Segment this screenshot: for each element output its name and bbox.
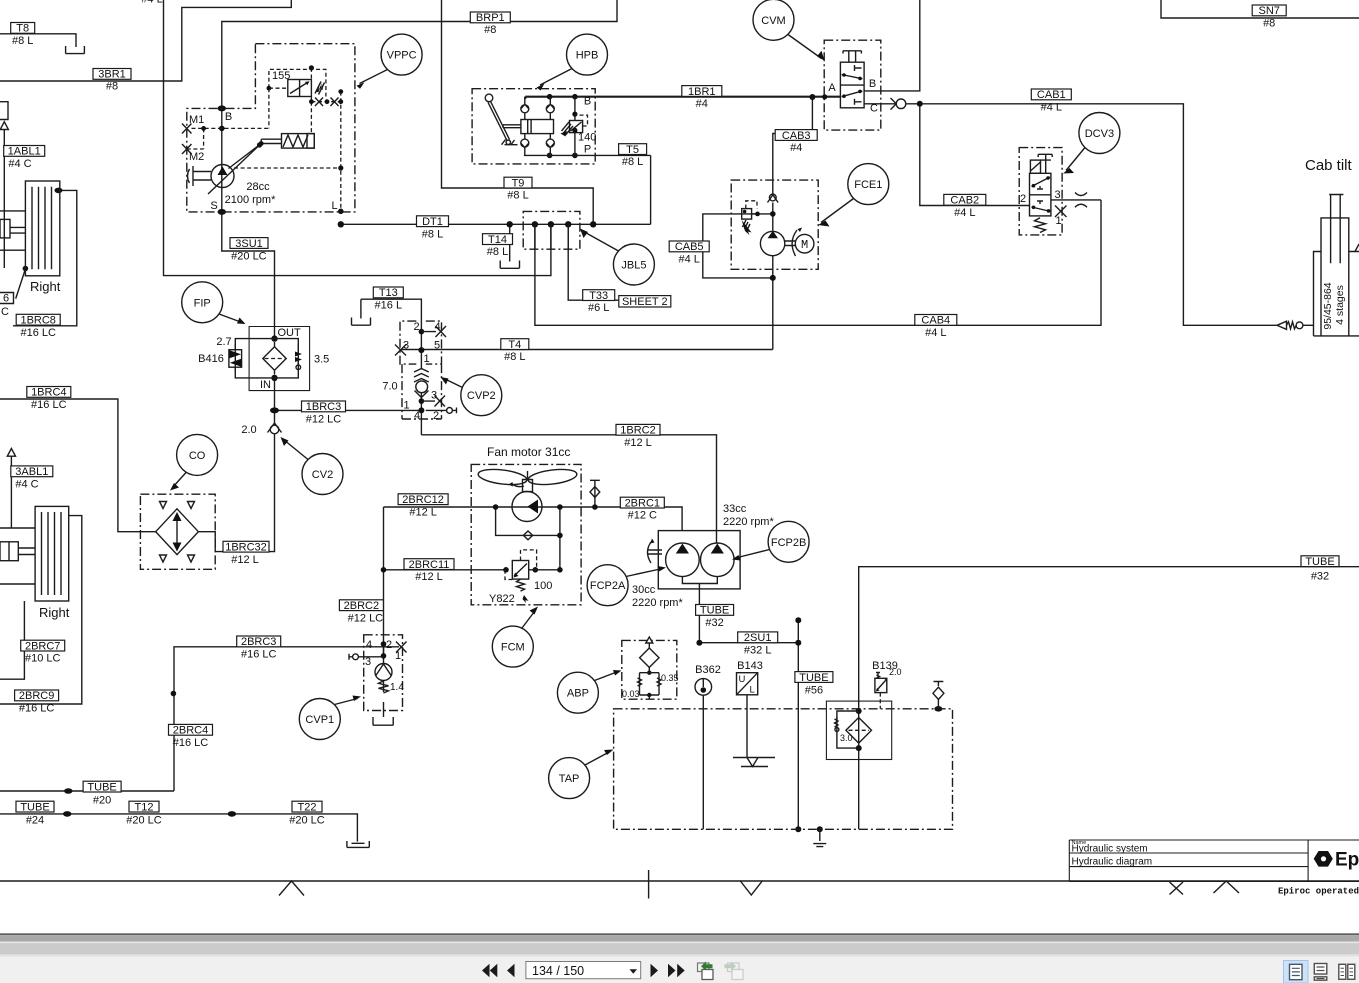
CVM enclosure (dash-dot) — [824, 40, 881, 130]
wire CAB5 — [703, 214, 773, 278]
DCV3 port X — [1055, 206, 1067, 218]
svg-text:2.0: 2.0 — [241, 424, 256, 436]
svg-text:C: C — [1, 306, 9, 318]
svg-text:#12 LC: #12 LC — [306, 414, 342, 426]
wire CAB3 from 1BR1 to FCE1 — [773, 97, 813, 193]
svg-text:JBL5: JBL5 — [621, 260, 646, 272]
CO bridge arrows — [176, 515, 178, 549]
svg-text:3BR1: 3BR1 — [98, 69, 126, 81]
wire CVM C-port to check valve — [864, 103, 895, 105]
wire T14 drop to tank — [509, 224, 511, 261]
HPB enclosure (dash-dot) — [472, 89, 595, 164]
wire TUBE#32 main return — [859, 567, 1359, 830]
svg-text:SHEET 2: SHEET 2 — [622, 296, 668, 308]
svg-text:1BR1: 1BR1 — [688, 86, 716, 98]
junction dot 1BRC3 node — [270, 407, 279, 413]
svg-text:HPB: HPB — [576, 50, 599, 62]
HPB P internal line — [524, 154, 651, 156]
svg-text:#4 L: #4 L — [678, 254, 699, 266]
FCP2B pump circle — [701, 543, 735, 577]
junction dots B139 filter — [856, 708, 862, 714]
Epiroc logo — [1314, 850, 1359, 871]
HPB check valves (4) — [521, 105, 529, 113]
wire 1BRC4 — [0, 399, 156, 532]
svg-text:T12: T12 — [135, 801, 154, 813]
label SN7 — [1252, 5, 1286, 16]
toolbar previous-page button — [507, 964, 515, 977]
tank symbol T13 — [352, 318, 371, 326]
HPB relief valve — [570, 121, 583, 133]
svg-text:T33: T33 — [589, 290, 608, 302]
svg-text:2BRC9: 2BRC9 — [19, 690, 54, 702]
wire 2BRC9 — [0, 516, 82, 704]
B143 level sensor — [737, 673, 758, 695]
svg-text:#4 L: #4 L — [141, 0, 162, 6]
pump P1 circle — [211, 165, 234, 188]
CO bridge diamond — [156, 509, 199, 555]
label 2BRC4 — [169, 724, 213, 735]
label TUBE #32 pump — [696, 605, 734, 616]
upper drum brake assembly — [25, 181, 59, 276]
svg-text:#4 C: #4 C — [8, 158, 31, 170]
svg-text:28cc: 28cc — [246, 181, 270, 193]
svg-text:#16 L: #16 L — [375, 300, 403, 312]
svg-text:DT1: DT1 — [422, 216, 443, 228]
svg-text:#56: #56 — [805, 685, 823, 697]
svg-text:#4 C: #4 C — [15, 478, 38, 490]
lower drum cylinder — [0, 542, 18, 561]
label CAB2 — [944, 194, 986, 205]
wire FCE1 output down to T4 line — [772, 256, 774, 350]
svg-text:2: 2 — [386, 639, 392, 651]
wire T12 T22 TUBE#24 — [0, 814, 357, 842]
svg-text:95/45-864: 95/45-864 — [1322, 282, 1334, 329]
label CAB5 — [669, 241, 709, 252]
svg-text:3: 3 — [431, 390, 437, 402]
toolbar next-view icon (disabled) — [725, 962, 744, 980]
svg-text:#8 L: #8 L — [507, 190, 528, 202]
svg-text:100: 100 — [534, 580, 552, 592]
svg-text:#8: #8 — [1263, 18, 1275, 30]
wire B362 stem — [702, 695, 704, 829]
tank symbol CVP1 — [373, 717, 393, 725]
fan hub — [523, 471, 533, 492]
wire DT1 — [341, 223, 651, 225]
svg-text:B416: B416 — [198, 353, 224, 365]
pump P1 flow triangle — [218, 167, 228, 176]
wire CV2 down to 1BRC32 and CO bridge — [198, 434, 274, 552]
svg-text:4: 4 — [366, 639, 372, 651]
label CAB1 — [1031, 89, 1071, 100]
svg-text:B: B — [869, 78, 876, 90]
svg-text:3.5: 3.5 — [314, 354, 329, 366]
FIP filter outer box — [249, 327, 310, 391]
svg-text:1: 1 — [423, 353, 429, 365]
balloon DCV3 — [1079, 113, 1120, 154]
balloon FCM — [492, 626, 533, 667]
wire upper drum connections — [0, 211, 25, 250]
svg-text:DCV3: DCV3 — [1085, 128, 1114, 140]
svg-text:OUT: OUT — [278, 327, 302, 339]
wire CVM B-port riser to top — [864, 0, 920, 91]
toolbar background strips — [0, 933, 1359, 935]
svg-text:M: M — [801, 238, 808, 252]
tank symbol T14 — [500, 261, 519, 269]
toolbar next-page button — [651, 964, 659, 977]
svg-text:1ABL1: 1ABL1 — [8, 146, 41, 158]
svg-text:#20 LC: #20 LC — [289, 815, 325, 827]
wire 1BR1 HPB B-port to CVM A — [525, 96, 840, 98]
junction dot CAB5 at FCE1 output — [770, 275, 776, 281]
wire T9 riser — [442, 0, 594, 224]
svg-text:TUBE: TUBE — [20, 801, 49, 813]
svg-text:CAB5: CAB5 — [675, 241, 704, 253]
svg-text:#4 L: #4 L — [954, 207, 975, 219]
svg-text:CVP2: CVP2 — [467, 390, 496, 402]
svg-text:T4: T4 — [508, 339, 521, 351]
svg-text:#12 L: #12 L — [231, 554, 259, 566]
wire 1BRC8 — [13, 190, 77, 325]
svg-text:T8: T8 — [16, 23, 29, 35]
svg-text:#4 L: #4 L — [925, 327, 946, 339]
svg-text:TUBE: TUBE — [700, 605, 729, 617]
svg-text:140: 140 — [578, 132, 596, 144]
svg-text:#4: #4 — [696, 98, 708, 110]
DT1 manifold enclosure (dash-dot) — [523, 211, 580, 249]
Y822 spring — [517, 579, 525, 591]
CVP2 drain port — [426, 409, 447, 411]
wire 2BRC7 — [0, 601, 24, 679]
junction dots HPB B/P lines — [547, 94, 553, 100]
svg-text:B362: B362 — [695, 664, 721, 676]
wire tank return riser TUBE#56 — [797, 620, 799, 829]
balloon FCP2B — [768, 521, 809, 562]
tank symbol T8 — [66, 46, 85, 54]
svg-text:155: 155 — [272, 70, 290, 82]
svg-text:M2: M2 — [189, 151, 204, 163]
junction dot filter IN — [271, 375, 277, 381]
svg-text:CAB1: CAB1 — [1037, 89, 1066, 101]
wire 3BR1 — [0, 0, 291, 81]
frame mark tick — [648, 870, 650, 899]
junction dot DT1 left end — [338, 221, 344, 227]
2BRC1 check valve stub — [590, 480, 600, 497]
frame mark chevron right — [1214, 881, 1240, 893]
wire 3ABL1 riser — [10, 456, 12, 528]
junction dots DT1 manifold — [507, 221, 513, 227]
CO bridge corner flow triangles — [160, 502, 195, 563]
label 2BRC9 — [15, 690, 59, 701]
junction dot pump S — [218, 209, 226, 215]
1ABL1 arrow head — [0, 122, 8, 130]
CVP1 orifice X — [396, 642, 407, 653]
wire CVP2 main stem — [420, 332, 422, 411]
junction dot M1 row — [219, 126, 225, 132]
B139 clogging indicator — [875, 678, 887, 692]
wire lower drum connections — [0, 528, 35, 584]
label 1BRC8 — [16, 314, 60, 325]
frame mark vee — [740, 881, 763, 896]
DCV3 enclosure (dash-dot) — [1019, 148, 1062, 235]
svg-text:1: 1 — [403, 400, 409, 412]
wire T5 riser from HPB P — [650, 155, 652, 224]
junction dots CVP2 — [419, 329, 425, 335]
svg-text:2SU1: 2SU1 — [744, 632, 772, 644]
valve 155 relief spring — [316, 83, 324, 92]
B416 bypass check — [229, 350, 242, 368]
svg-text:3ABL1: 3ABL1 — [15, 466, 48, 478]
fan motor triangle — [528, 500, 539, 514]
FCP2B flow triangle — [711, 544, 724, 554]
junction dots fan motor — [493, 504, 499, 510]
FCP2 dual pump box — [658, 531, 740, 589]
label T14 — [483, 234, 513, 245]
svg-text:B: B — [584, 96, 591, 108]
svg-text:M1: M1 — [189, 114, 204, 126]
wire CVP2 drop to 1BRC2 — [420, 410, 422, 434]
CVP2 port 4 orifice — [421, 326, 446, 337]
svg-text:#16 LC: #16 LC — [31, 399, 67, 411]
svg-text:S: S — [210, 200, 217, 212]
svg-text:2BRC7: 2BRC7 — [25, 640, 60, 652]
wire filter IN down to 1BRC3 node and CV2 — [274, 378, 276, 425]
Y822 valve body — [512, 561, 528, 580]
wire SN7 — [1161, 0, 1359, 18]
label TUBE #32 right — [1301, 556, 1339, 567]
svg-text:U: U — [739, 674, 746, 685]
wire 2BRC3 — [174, 647, 399, 791]
junction dots 2BRC11 — [381, 567, 387, 573]
wire B143 stem — [746, 695, 748, 758]
DCV3 spring — [1035, 218, 1046, 233]
svg-text:TUBE: TUBE — [799, 672, 828, 684]
HPB check valve stubs — [525, 97, 551, 156]
CVM valve body — [840, 62, 864, 108]
label 3ABL1 — [11, 466, 53, 477]
label 3BR1 — [93, 69, 131, 80]
fan blades — [477, 467, 577, 487]
svg-text:#4 L: #4 L — [1041, 102, 1062, 114]
label 2BRC7 — [21, 640, 65, 651]
svg-text:#12 L: #12 L — [415, 571, 443, 583]
svg-text:CVP1: CVP1 — [305, 714, 334, 726]
ABP twin relief — [648, 667, 650, 672]
svg-text:2.7: 2.7 — [216, 336, 231, 348]
svg-text:4 stages: 4 stages — [1334, 285, 1346, 325]
label 3SU1 — [230, 238, 268, 249]
svg-text:B: B — [225, 111, 232, 123]
svg-text:P: P — [584, 144, 591, 156]
svg-text:0.35: 0.35 — [661, 673, 679, 683]
svg-text:2BRC11: 2BRC11 — [409, 559, 450, 571]
svg-text:#12 L: #12 L — [409, 506, 437, 518]
label CAB3 — [775, 130, 817, 141]
HPB B internal line — [524, 97, 526, 99]
junction dots bottom tube lines — [63, 811, 71, 817]
svg-text:6: 6 — [3, 293, 9, 305]
B362 level gauge — [695, 679, 712, 696]
svg-text:#32: #32 — [705, 617, 723, 629]
svg-text:#20 LC: #20 LC — [231, 251, 267, 263]
CVP2 valve block (dash-dot) — [400, 321, 442, 419]
balloon FCE1 — [848, 164, 889, 205]
svg-text:#16 LC: #16 LC — [20, 327, 56, 339]
CV2 check valve — [270, 425, 279, 434]
junction dot drum upper — [55, 188, 63, 194]
label TUBE #56 — [795, 672, 833, 683]
pump P1 control spring actuator — [282, 134, 315, 149]
junction dot pump B — [218, 105, 226, 111]
label 2BRC2 — [339, 600, 383, 611]
dashed pilot M1/M2 — [187, 128, 269, 149]
FIP right relief — [295, 352, 302, 363]
svg-text:#8: #8 — [106, 81, 118, 93]
B143 ground symbol — [733, 758, 775, 767]
svg-text:#10 LC: #10 LC — [25, 653, 61, 665]
svg-text:1: 1 — [1055, 215, 1061, 227]
Y822 pilot dashed — [505, 550, 537, 580]
ABP filter diamond — [640, 648, 659, 667]
svg-text:CAB3: CAB3 — [782, 130, 811, 142]
svg-text:B143: B143 — [737, 660, 763, 672]
svg-text:33cc: 33cc — [723, 503, 747, 515]
lower drum brake assembly — [35, 506, 69, 601]
balloon ABP — [557, 672, 598, 713]
title block — [1069, 840, 1359, 881]
upper-left fragment box — [0, 102, 8, 120]
wire cab tilt feed — [1303, 324, 1314, 326]
junction dot filter OUT — [271, 335, 277, 341]
label 2BRC12 — [398, 494, 448, 505]
pump P1 shaft — [188, 166, 212, 186]
svg-text:SN7: SN7 — [1258, 5, 1279, 17]
svg-text:#8 L: #8 L — [487, 246, 508, 258]
view mode single page icon (active) — [1284, 961, 1309, 983]
balloon CO — [177, 434, 218, 475]
svg-text:2.0: 2.0 — [889, 667, 902, 677]
label T5 — [619, 144, 647, 155]
svg-text:2: 2 — [1020, 193, 1026, 205]
label T13 — [373, 287, 403, 298]
label T12 — [129, 801, 159, 812]
svg-text:1BRC2: 1BRC2 — [620, 425, 655, 437]
svg-text:CAB4: CAB4 — [921, 315, 950, 327]
toolbar first-page button — [482, 964, 497, 977]
svg-text:#8 L: #8 L — [422, 228, 443, 240]
cab tilt lowering valve — [1277, 321, 1287, 329]
junction dots 1BR1 at CVM A — [809, 94, 815, 100]
svg-text:#8 L: #8 L — [12, 35, 33, 47]
toolbar previous-view icon — [698, 962, 714, 980]
view mode continuous icon — [1314, 964, 1327, 975]
CVM lower cell — [842, 91, 863, 105]
svg-text:1BRC3: 1BRC3 — [306, 401, 341, 413]
svg-text:5: 5 — [434, 340, 440, 352]
svg-text:TUBE: TUBE — [87, 781, 116, 793]
CVP1 spring — [379, 681, 389, 693]
toolbar page number box — [526, 962, 641, 979]
view mode facing icon — [1339, 964, 1346, 979]
wire 2BRC11 — [384, 569, 560, 571]
svg-text:#8 L: #8 L — [504, 351, 525, 363]
balloon HPB — [567, 34, 608, 75]
svg-text:Right: Right — [30, 279, 61, 294]
label T33 — [583, 290, 615, 301]
CVM manual actuator — [843, 51, 861, 62]
dashed drain pump to L — [234, 167, 341, 169]
wire 2BRC1 check stub — [594, 480, 596, 507]
svg-text:#20: #20 — [93, 795, 111, 807]
svg-text:T9: T9 — [512, 177, 525, 189]
junction dot 2BRC3 at CVP1 — [356, 813, 358, 815]
junction dots CVP1 ports — [381, 641, 387, 647]
svg-text:C: C — [870, 103, 878, 115]
frame mark cross — [1170, 882, 1184, 895]
svg-text:FIP: FIP — [194, 297, 211, 309]
valve 155 body — [288, 80, 312, 97]
wire FCE1 check to relief node and pump — [742, 203, 773, 231]
svg-text:CO: CO — [189, 450, 206, 462]
DCV3 actuator stem — [1038, 154, 1052, 173]
label 2BRC3 — [237, 636, 281, 647]
FCE1 rotation arrow — [792, 230, 797, 256]
svg-text:#12 L: #12 L — [624, 437, 652, 449]
wire 2BRC12 riser — [383, 507, 385, 656]
label DT1 — [417, 216, 449, 227]
label 2BRC11 — [404, 559, 454, 570]
svg-text:Epiro: Epiro — [1335, 850, 1359, 871]
wire fan motor supply 2BRC12/2BRC1 — [384, 507, 683, 531]
svg-text:A: A — [828, 82, 836, 94]
wire fan motor bypass loop — [496, 507, 560, 570]
svg-text:4: 4 — [414, 410, 420, 422]
tank symbol T22 — [347, 841, 369, 847]
wire 1BRC2 — [421, 435, 716, 544]
wire CAB4 from DT1 manifold to DCV3 port 3 — [535, 200, 1101, 325]
svg-text:134 / 150: 134 / 150 — [532, 964, 584, 978]
CVM upper cell — [842, 65, 863, 79]
svg-text:L: L — [331, 200, 337, 212]
svg-text:#16 LC: #16 LC — [173, 737, 209, 749]
label 1BRC4 — [27, 387, 71, 398]
toolbar last-page button — [668, 964, 685, 977]
FIP filter element diamond — [263, 347, 286, 370]
svg-text:L: L — [750, 685, 755, 696]
balloon CVM — [753, 0, 794, 40]
svg-text:2220 rpm*: 2220 rpm* — [632, 597, 683, 609]
balloon FIP — [182, 282, 223, 323]
label fragment 6/C — [0, 293, 14, 304]
HPB relief pilot dashed — [575, 115, 588, 126]
balloon CV2 — [302, 454, 343, 495]
label 1BRC3 — [302, 401, 346, 412]
svg-text:1BRC4: 1BRC4 — [31, 387, 66, 399]
B139 bypass relief — [837, 711, 859, 748]
label 1BRC32 — [223, 541, 269, 552]
wire upper drum lower-left diagonal — [16, 269, 26, 299]
wire 1BRC3 — [275, 409, 422, 411]
svg-text:1.4: 1.4 — [390, 682, 404, 693]
svg-text:#4: #4 — [790, 142, 802, 154]
junction dot drum upper lower-left — [23, 266, 29, 272]
svg-text:T13: T13 — [379, 287, 398, 299]
wire 1ABL1 riser — [3, 130, 5, 269]
TAP breather check — [934, 682, 944, 709]
wire T13 to tank and CVP2 port 2 — [361, 299, 422, 331]
label T8 — [11, 23, 35, 34]
wire CAB1 — [907, 104, 1278, 325]
svg-text:#8 L: #8 L — [622, 156, 643, 168]
